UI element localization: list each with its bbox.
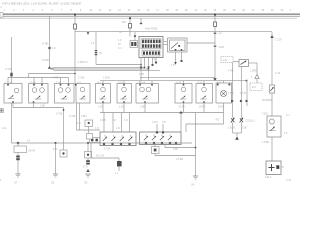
module B box (140, 131, 182, 144)
label 17 A (83, 166, 88, 169)
connector mark c y101 (246, 100, 249, 103)
label 4 RD right (228, 70, 257, 73)
labels above module B (152, 121, 166, 124)
label 1 4A (2, 127, 7, 130)
svg-text:G34 B: G34 B (28, 150, 35, 153)
svg-text:C 10: C 10 (275, 72, 281, 75)
svg-text:17 BK: 17 BK (56, 113, 63, 116)
component chain x88 (85, 143, 92, 160)
node fan1-cem (144, 66, 146, 68)
wire feed x75 (74, 15, 76, 85)
label 4 D (216, 119, 220, 122)
svg-text:2 E: 2 E (152, 58, 156, 61)
fuse chain x96 (95, 32, 98, 65)
connector CE dashed box (221, 57, 233, 63)
label 30 RD(M) (262, 99, 273, 102)
stub E2 bottom (34, 103, 64, 108)
svg-text:1 R: 1 R (171, 64, 175, 67)
small connector x88 (77, 120, 93, 127)
wire x241 down (240, 67, 242, 118)
svg-text:17 BK: 17 BK (78, 77, 85, 80)
svg-text:1.5GN: 1.5GN (103, 77, 110, 80)
wire lamp header y80.6 (100, 80, 247, 82)
svg-text:4 F: 4 F (219, 33, 223, 36)
diode mark b below CEM (147, 67, 150, 70)
junction arrow at 49,68 (48, 66, 52, 69)
wire box to G11 (271, 137, 273, 161)
svg-text:30 RD(M): 30 RD(M) (262, 99, 273, 102)
lamp E9 box (196, 84, 213, 104)
svg-text:1.5 RD: 1.5 RD (42, 59, 50, 62)
svg-text:4 RD 0.5: 4 RD 0.5 (78, 61, 88, 64)
svg-text:1.5 BK: 1.5 BK (176, 158, 184, 161)
svg-text:C 44: C 44 (286, 179, 292, 182)
ground G4 (193, 176, 198, 179)
label below CEM (139, 58, 156, 76)
wire CEM to relay b (163, 44, 168, 46)
label 1 BK y106 (40, 105, 46, 108)
svg-text:C 1: C 1 (286, 114, 290, 117)
svg-text:1.5 R: 1.5 R (228, 92, 234, 95)
svg-text:4 D 5: 4 D 5 (152, 121, 158, 124)
bus bar line 1 (0, 12, 300, 14)
label right faint (284, 114, 290, 135)
junction diamond x18 (16, 141, 19, 144)
svg-text:1 D: 1 D (95, 127, 99, 130)
svg-text:1.5B: 1.5B (242, 127, 247, 130)
svg-text:1 D: 1 D (124, 119, 128, 122)
svg-text:17.5A: 17.5A (104, 148, 111, 151)
BCM dashed box (250, 83, 262, 91)
side connector module A (87, 134, 93, 140)
svg-text:1 F: 1 F (118, 39, 122, 42)
wire y124 (186, 124, 224, 132)
label 1.5 BK (262, 141, 270, 144)
wire y158 (91, 143, 119, 158)
component x119 (115, 158, 122, 175)
svg-text:1 BK: 1 BK (40, 105, 46, 108)
module B top stubs (157, 124, 163, 131)
fuse box small a (90, 138, 101, 143)
wire y31.7 (75, 31, 272, 33)
wire fan line 2 (50, 68, 149, 70)
svg-text:30 BK: 30 BK (199, 105, 206, 108)
corner down x135 (134, 32, 136, 41)
CEM pin grid lower (142, 50, 160, 56)
svg-text:G18: G18 (53, 148, 58, 151)
relay stub marks (171, 60, 183, 67)
node x88 y143 (87, 142, 89, 144)
wire left lamp header y77.5 (8, 74, 69, 78)
left lamp stubs (8, 78, 69, 84)
lamp C101 box (262, 113, 281, 138)
control module CEM box (139, 37, 163, 58)
wire feed x213 (214, 15, 216, 81)
svg-text:1 BN: 1 BN (81, 115, 87, 118)
label 17 BK x63 (56, 113, 63, 116)
svg-text:1 BK: 1 BK (139, 73, 145, 76)
labels 1.5GN (228, 127, 247, 130)
CEM output stubs (141, 58, 156, 81)
svg-text:1 F: 1 F (91, 42, 95, 45)
wire x257 low (256, 79, 258, 84)
label 30 1.5A (96, 155, 105, 158)
ground name labels (14, 182, 195, 187)
label 1.5 BK low (176, 158, 184, 161)
stub E1 bottom (13, 103, 34, 108)
lamp E3 box (55, 84, 75, 104)
diode D1 (231, 118, 235, 123)
connector marks below CEM (152, 62, 158, 67)
ground unit G11 box (266, 161, 281, 175)
label 30 F1 column (118, 31, 122, 50)
ground rail y143 (12, 142, 193, 144)
risers into module A (104, 113, 130, 133)
wire K2 right (249, 63, 258, 74)
stub arrow x88 (87, 32, 90, 35)
wire feed x130 (129, 16, 131, 36)
CEM side connector box (130, 41, 138, 48)
svg-text:4 D: 4 D (216, 119, 220, 122)
wire x232 down (232, 63, 234, 118)
lamp E7 box (136, 84, 159, 104)
labels y94 (228, 92, 246, 95)
lamp box entry pins (7, 84, 205, 86)
ground G3 (85, 174, 90, 177)
transistor G18 (53, 143, 67, 157)
label 17.5A (104, 148, 111, 151)
connector mark a y101 (231, 100, 234, 103)
node fan2-cem (148, 68, 150, 70)
wire y155.5 (155, 154, 196, 156)
bus bar line 3 (0, 15, 300, 17)
wire labels under lamps (98, 105, 225, 108)
wire riser x246 (246, 80, 248, 82)
arrow on x272 (270, 35, 282, 75)
label 15A fuse (122, 21, 127, 24)
svg-text:1.5G: 1.5G (119, 105, 124, 108)
diode mark a below CEM (140, 67, 143, 70)
wire x247 down (246, 80, 248, 106)
junction arrow x213 y80 (213, 78, 217, 80)
fuse F1 (129, 24, 132, 29)
lamp E2 box (29, 84, 49, 104)
wire fan line 0 (96, 64, 142, 66)
label under x141 (145, 28, 158, 31)
connector arrow x257 (251, 75, 259, 80)
connector mark b y101 (240, 100, 243, 103)
label 4 RD 0.5 (78, 61, 88, 64)
connector C100 mark (48, 47, 56, 50)
svg-text:17 A: 17 A (83, 166, 88, 169)
label C112 L (246, 120, 255, 123)
sensor on x272 (269, 85, 274, 93)
wire y73.5 (29, 73, 76, 75)
svg-text:C112(L ): C112(L ) (246, 120, 255, 123)
svg-text:17 RD: 17 RD (42, 43, 49, 46)
label 17 RD left (5, 68, 12, 71)
merge arrow x237 (235, 137, 239, 140)
svg-text:1 D: 1 D (112, 119, 116, 122)
wire x18 down (17, 143, 19, 174)
svg-text:17 RD: 17 RD (5, 68, 12, 71)
merge wire y133 (233, 133, 242, 137)
relay K2 (239, 60, 249, 67)
connector pair x18 (16, 156, 20, 161)
label bottom right (286, 179, 292, 182)
svg-text:1.5G: 1.5G (98, 105, 103, 108)
label row y128 (95, 127, 120, 130)
lamp box exit pins (12, 101, 205, 103)
label 17 BK pair (69, 115, 87, 118)
wire E4 bottom pair (77, 103, 101, 130)
wire relay to x212 (187, 42, 215, 44)
connector pair x88 (86, 160, 90, 164)
svg-text:C 2: C 2 (77, 122, 81, 125)
svg-text:G11 4: G11 4 (265, 176, 272, 179)
svg-text:30 BK: 30 BK (179, 105, 186, 108)
diode D2 (240, 118, 244, 123)
wire CEM to relay a (163, 41, 168, 43)
wire ground riser x195 (195, 113, 197, 177)
lamp bottom stubs (103, 103, 204, 113)
bus bar line 4 (0, 17, 297, 19)
lamp E6 box (117, 84, 132, 104)
wire fan line 1 (50, 67, 145, 68)
svg-text:C 2: C 2 (52, 47, 56, 50)
ground G2 (53, 174, 58, 177)
label 1A (27, 140, 30, 143)
svg-text:1A: 1A (27, 140, 30, 143)
lamp E4 box (76, 84, 90, 104)
svg-text:1 RD: 1 RD (53, 77, 59, 80)
svg-text:4757-2 WD5.0B L:2011-, L:CH: 4757-2 WD5.0B L:2011-, L:CH 512345-, RL:… (2, 1, 82, 5)
module A box (100, 132, 136, 146)
svg-text:C 107: C 107 (276, 39, 283, 42)
svg-text:1 D: 1 D (116, 127, 120, 130)
wire x88 down (88, 127, 90, 138)
svg-text:15A: 15A (122, 21, 127, 24)
wire gauge labels y78 (53, 77, 110, 80)
svg-text:1.5 R: 1.5 R (240, 92, 246, 95)
labels above module A (100, 119, 128, 122)
connector box G34 (14, 146, 35, 153)
svg-text:30 BK: 30 BK (218, 105, 225, 108)
node x75 y73.5 (74, 73, 76, 75)
svg-text:B C: B C (252, 86, 256, 89)
bus bar line 2 (0, 14, 300, 16)
node bus x130 (129, 17, 131, 19)
fuse F2 (74, 24, 77, 29)
wire CE to K2 (233, 61, 239, 63)
svg-text:4 D: 4 D (162, 121, 166, 124)
svg-text:17 BK: 17 BK (69, 115, 76, 118)
relay K1 box (168, 38, 188, 52)
riser x181 (180, 113, 182, 133)
svg-text:C101: C101 (262, 113, 268, 116)
page number (0, 179, 2, 182)
wire x55 down (55, 143, 57, 174)
lamp E10 box (216, 83, 232, 103)
label 1 F (91, 42, 102, 55)
svg-text:30 1.5A: 30 1.5A (96, 155, 105, 158)
svg-text:1 4A: 1 4A (2, 127, 7, 130)
wire x272 long (271, 32, 273, 116)
node bus x75 (74, 14, 76, 16)
svg-text:1.5 BK: 1.5 BK (262, 141, 270, 144)
label 4 BK (173, 148, 179, 151)
wire main feed x49 (49, 16, 51, 68)
wire below module B (165, 145, 196, 148)
svg-text:4 RD: 4 RD (219, 46, 225, 49)
label 17 RD (42, 43, 49, 46)
node x55 y143 (55, 142, 57, 144)
svg-text:C E: C E (223, 59, 227, 62)
bus feed x141 stub (140, 18, 142, 24)
page index 2 (1, 6, 3, 9)
svg-text:1 BK: 1 BK (140, 105, 146, 108)
wire x63 down (63, 108, 65, 144)
fuse F3 (214, 22, 217, 27)
svg-text:1.5RD: 1.5RD (250, 70, 257, 73)
bus terminal box left (0, 13, 3, 18)
lamp top stubs (103, 81, 224, 84)
collector y112.5 (100, 112, 224, 114)
connector C65 on left feed (10, 73, 12, 77)
left margin connector (0, 109, 3, 113)
tick marks x213 (214, 33, 225, 50)
svg-text:4A15 RD30: 4A15 RD30 (145, 28, 158, 31)
svg-text:C 1: C 1 (118, 47, 122, 50)
wires below diodes (233, 123, 242, 134)
lamp E1 box (4, 84, 22, 104)
svg-text:4 BK: 4 BK (173, 148, 179, 151)
ruler scale numbers (4, 9, 293, 12)
junction arrow y112.5 (179, 111, 183, 114)
node bus x213 (214, 14, 216, 16)
svg-text:1 D 5: 1 D 5 (100, 119, 106, 122)
label 1.5 RD (42, 59, 50, 62)
wire y77.3 (140, 76, 215, 78)
CEM pin grid upper (141, 39, 161, 49)
connector below module B (152, 145, 160, 154)
lamp E5 box (96, 84, 111, 104)
lamp E8 box (175, 84, 192, 104)
wire left feed x11 (11, 37, 13, 143)
label G11 (265, 166, 284, 179)
arrow mark x88 (86, 169, 90, 172)
svg-text:1.5GN: 1.5GN (228, 127, 235, 130)
ground G1 (15, 174, 20, 177)
lamp row labels (5, 81, 221, 84)
title text (2, 1, 82, 5)
relay bottom stubs (176, 52, 182, 62)
wire B10 down x222 (223, 103, 225, 124)
wire fan line 3 (50, 69, 161, 71)
